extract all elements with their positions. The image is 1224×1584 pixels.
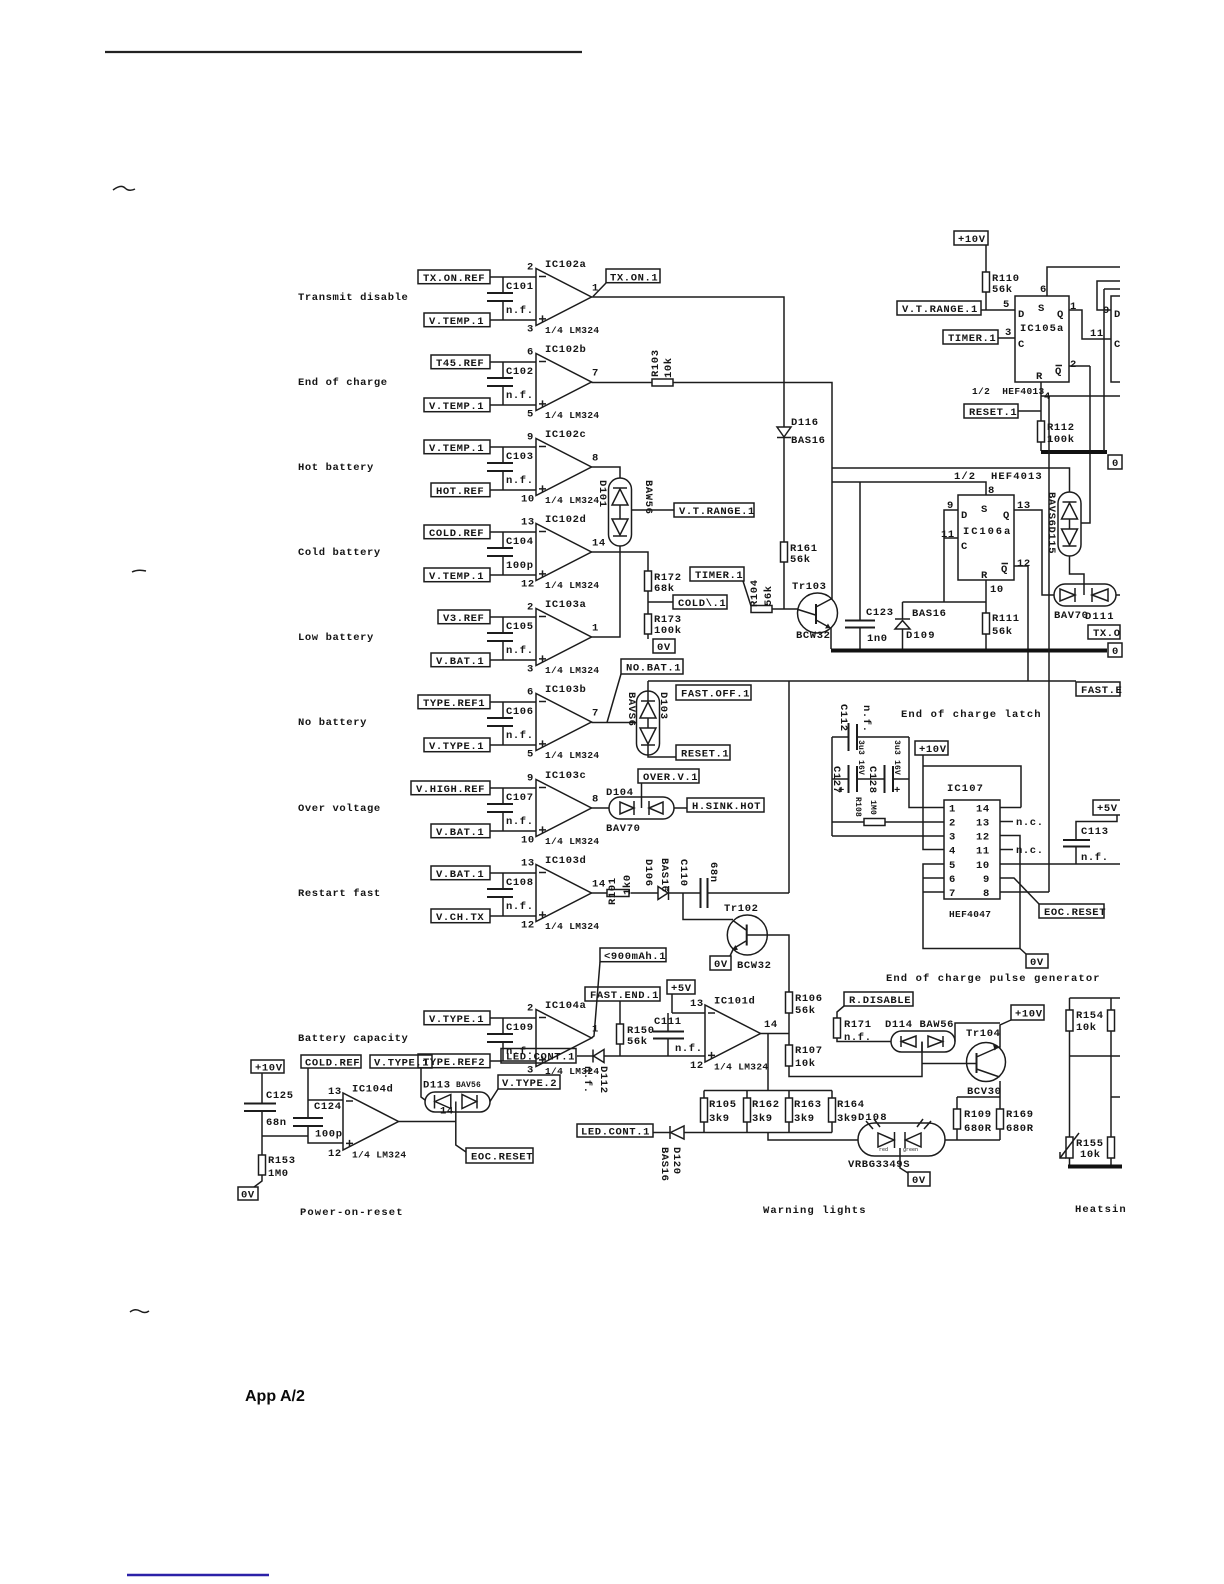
wire V.TEMP.1 to IC102b plus input [490, 404, 536, 406]
svg-text:13: 13 [690, 998, 704, 1010]
svg-text:IC106a: IC106a [963, 526, 1012, 538]
net label RESET.1 (right) [964, 404, 1018, 419]
wire V.HIGH.REF to IC103c minus input [490, 787, 536, 789]
svg-text:End of charge pulse generator: End of charge pulse generator [886, 973, 1101, 985]
svg-text:R154: R154 [1076, 1010, 1104, 1022]
wire heatsink mid rail [1070, 1055, 1121, 1057]
dual diode D113 [425, 1092, 490, 1112]
svg-text:No battery: No battery [298, 717, 367, 729]
net label 0V (Tr102) [710, 956, 731, 971]
svg-text:T45.REF: T45.REF [436, 358, 484, 370]
svg-text:V.TYPE.1: V.TYPE.1 [374, 1058, 429, 1070]
wire D101 mid to V.T.RANGE.1 [632, 509, 675, 511]
svg-text:1/4 LM324: 1/4 LM324 [545, 325, 599, 336]
diode D120 BAS16 [653, 1126, 684, 1182]
resistor R164 3k9 [829, 1091, 865, 1133]
svg-text:Heatsin: Heatsin [1075, 1204, 1127, 1216]
wire IC104d out [399, 1112, 456, 1122]
svg-text:H.SINK.HOT: H.SINK.HOT [692, 801, 761, 813]
net label V.CH.TX (row IC103d bottom) [431, 909, 490, 924]
wire D106 to C110 [669, 892, 701, 894]
svg-text:12: 12 [521, 919, 535, 931]
wire mid cap row [832, 778, 909, 780]
net label TX.O (cut) [1088, 625, 1121, 640]
wire V.TYPE.1 to IC103b plus input [490, 744, 536, 746]
net label TIMER.1 (right) [943, 330, 998, 345]
resistor R107 10k [786, 1045, 823, 1070]
wire pin 10 long line [1000, 863, 1120, 865]
svg-text:n.f.: n.f. [860, 705, 872, 733]
svg-text:Warning lights: Warning lights [763, 1205, 867, 1217]
net label 0V (IC107) [1026, 954, 1048, 969]
wire Tr104 collector to +10V [999, 1020, 1011, 1047]
svg-text:12: 12 [328, 1148, 342, 1160]
wire LED feed jog to D108 [768, 1133, 858, 1141]
resistor R106 56k [786, 992, 823, 1017]
svg-text:BAS16: BAS16 [658, 858, 670, 893]
svg-text:7: 7 [592, 368, 599, 380]
net label 0V (D108) [908, 1172, 930, 1187]
svg-text:IC102a: IC102a [545, 259, 587, 271]
wire TX.ON.1 label stub [593, 283, 606, 297]
svg-text:2: 2 [949, 818, 956, 830]
wire D103 top to FAST wire [647, 681, 649, 701]
svg-text:1/4 LM324: 1/4 LM324 [545, 921, 599, 932]
page header rule [105, 51, 582, 53]
wire COLD.REF down to minus input [308, 1068, 343, 1118]
svg-text:680R: 680R [964, 1123, 992, 1135]
net label V.T.RANGE.1 (right) [897, 301, 981, 316]
svg-text:BAS16: BAS16 [791, 435, 826, 447]
wire right-edge vertical to RESET net [1104, 289, 1120, 451]
svg-text:Hot battery: Hot battery [298, 462, 374, 474]
wire D101 bottom to IC102d out junction [619, 546, 621, 552]
wire V.TYPE.1 to IC104a minus input [490, 1017, 536, 1019]
wire R150 to plus line [619, 1044, 621, 1056]
resistor R108 1M0 [853, 797, 885, 826]
wire 0V corner stub [1020, 949, 1026, 955]
wire FAST.END.1 to R150 [619, 1001, 621, 1024]
svg-text:1: 1 [592, 283, 599, 295]
svg-text:FAST.END.1: FAST.END.1 [590, 990, 659, 1002]
wire OVER.V.1 to D104 centre [641, 783, 643, 797]
flip-flop IC106a (1/2 HEF4013) [958, 495, 1014, 582]
net label OVER.V.1 [638, 769, 699, 784]
svg-text:D108: D108 [858, 1112, 888, 1124]
svg-text:0V: 0V [912, 1175, 926, 1187]
svg-text:0: 0 [1112, 646, 1119, 658]
wire IC105a Qbar stub [1069, 365, 1090, 367]
svg-text:100p: 100p [315, 1129, 343, 1141]
net label T45.REF (row IC102b top) [431, 355, 490, 370]
svg-text:BAS16: BAS16 [912, 608, 947, 620]
svg-text:Battery capacity: Battery capacity [298, 1033, 409, 1045]
svg-text:11: 11 [1090, 328, 1104, 340]
svg-text:BCW32: BCW32 [796, 630, 831, 642]
wire V.BAT.1 to IC103d minus input [490, 872, 536, 874]
net label TX.ON.REF (row IC102a top) [418, 270, 490, 285]
svg-text:Cold battery: Cold battery [298, 547, 381, 559]
svg-text:1/4 LM324: 1/4 LM324 [545, 750, 599, 761]
svg-text:BAV70: BAV70 [606, 823, 641, 835]
svg-text:V3.REF: V3.REF [443, 613, 484, 625]
svg-text:+10V: +10V [919, 744, 947, 756]
svg-text:Tr102: Tr102 [724, 903, 759, 915]
net label TX.ON.1 [606, 269, 660, 285]
svg-text:n.f.: n.f. [506, 901, 534, 913]
dual diode D101 BAW56 [609, 478, 632, 546]
diode D109 BAS16 [895, 602, 947, 649]
svg-text:5: 5 [527, 408, 534, 420]
wire IC105a S pin to top edge [1047, 267, 1120, 296]
wire IC103a out up to D101 chain [592, 552, 621, 637]
svg-text:+10V: +10V [958, 234, 986, 246]
svg-text:14: 14 [764, 1019, 778, 1031]
svg-text:R103: R103 [650, 349, 662, 377]
wire IC102b out to R103 [592, 382, 653, 384]
svg-text:0V: 0V [657, 642, 671, 654]
svg-text:0V: 0V [241, 1190, 255, 1202]
svg-text:13: 13 [328, 1086, 342, 1098]
svg-text:D114 BAW56: D114 BAW56 [885, 1019, 954, 1031]
svg-text:Restart fast: Restart fast [298, 888, 381, 900]
svg-text:D109: D109 [906, 630, 936, 642]
wire pin 3 line [832, 835, 944, 837]
svg-text:n.f.: n.f. [506, 730, 534, 742]
svg-text:V.TEMP.1: V.TEMP.1 [429, 316, 484, 328]
svg-text:56k: 56k [790, 554, 811, 566]
wire V.TEMP.1 to IC102c minus input [490, 446, 536, 448]
net label V3.REF (row IC103a top) [438, 610, 490, 625]
capacitor C101 [487, 277, 534, 320]
svg-text:FAST.E: FAST.E [1081, 685, 1122, 697]
svg-text:R: R [981, 570, 988, 582]
svg-text:R111: R111 [992, 613, 1020, 625]
svg-text:R107: R107 [795, 1045, 823, 1057]
capacitor C104 [487, 532, 534, 575]
op-amp IC102a [527, 259, 599, 336]
svg-text:10: 10 [521, 493, 535, 505]
wire TX.ON.REF to IC102a minus input [490, 276, 536, 278]
wire pin 13 n.c. [1000, 821, 1013, 823]
wire R101 to D106 [631, 892, 659, 894]
resistor R105 3k9 [701, 1091, 737, 1133]
svg-text:11: 11 [941, 529, 955, 541]
resistor R169 680R [997, 1109, 1034, 1135]
svg-text:End of charge latch: End of charge latch [901, 709, 1042, 721]
svg-text:IC103c: IC103c [545, 770, 586, 782]
svg-text:3k9: 3k9 [709, 1113, 730, 1125]
svg-text:1/4 LM324: 1/4 LM324 [545, 410, 599, 421]
svg-text:IC103a: IC103a [545, 599, 587, 611]
flip-flop IC105b (cut at page edge) [1111, 296, 1121, 382]
svg-text:V.BAT.1: V.BAT.1 [436, 869, 484, 881]
capacitor C128 3u3 16V [866, 740, 901, 797]
svg-text:n.f.: n.f. [1081, 852, 1109, 864]
svg-text:14: 14 [592, 538, 606, 550]
svg-text:R104: R104 [749, 579, 761, 607]
svg-text:10k: 10k [795, 1058, 816, 1070]
svg-text:3: 3 [949, 832, 956, 844]
net label EOC.RESET (bottom) [466, 1148, 533, 1164]
net label 0V (upper bus, cut) [1108, 455, 1122, 470]
svg-text:R108: R108 [853, 797, 862, 817]
wire D109 node to R111 node [903, 601, 987, 603]
wire R110 to D input wire [985, 292, 987, 310]
svg-text:D: D [1018, 309, 1025, 321]
svg-text:3: 3 [527, 323, 534, 335]
wire R111 pins [985, 602, 987, 649]
wire IC106a D/C bracket [944, 510, 958, 602]
svg-text:D112: D112 [597, 1066, 609, 1094]
power label +10V (IC107) [915, 741, 948, 756]
net label V.TEMP.1 (row IC102c top) [424, 440, 490, 455]
net label FAST.OFF.1 [676, 685, 751, 701]
dual diode D114 [891, 1031, 955, 1052]
wire V3.REF to IC103a minus input [490, 616, 536, 618]
wire right rail to pin 1 [909, 737, 944, 808]
svg-text:C113: C113 [1081, 826, 1109, 838]
net label RESET.1 (left) [676, 745, 730, 761]
svg-text:R164: R164 [837, 1099, 865, 1111]
dual LED D108 VRBG3349S [848, 1119, 945, 1171]
svg-text:3k9: 3k9 [794, 1113, 815, 1125]
svg-text:R112: R112 [1047, 422, 1075, 434]
wire IC107 pins 5,6,7 to 0V route [923, 836, 1020, 949]
svg-text:EOC.RESET: EOC.RESET [471, 1152, 533, 1164]
resistor (right ladder top, cut) [1108, 998, 1115, 1137]
net label FAST.END.1 [585, 987, 660, 1002]
svg-text:12: 12 [521, 578, 535, 590]
resistor R153 1M0 [259, 1155, 296, 1180]
svg-text:5: 5 [949, 860, 956, 872]
wire IC106a Q to D111 [1014, 510, 1054, 595]
resistor R171 n.f. [834, 1018, 872, 1044]
svg-text:9: 9 [983, 874, 990, 886]
svg-text:D: D [961, 510, 968, 522]
svg-text:+: + [838, 785, 845, 797]
net label V.TYPE.2 [498, 1075, 560, 1090]
svg-text:C104: C104 [506, 536, 534, 548]
svg-text:R.DISABLE: R.DISABLE [849, 995, 911, 1007]
wire RESET net to IC107 pin8 vertical [1048, 396, 1050, 892]
net label 0V (bus right, cut) [1108, 643, 1122, 658]
power label +10V (Tr104) [1011, 1005, 1044, 1021]
svg-text:10: 10 [521, 834, 535, 846]
svg-text:Power-on-reset: Power-on-reset [300, 1207, 404, 1219]
svg-text:D106: D106 [642, 859, 654, 887]
svg-text:IC102c: IC102c [545, 429, 586, 441]
svg-text:3u3 16V: 3u3 16V [856, 740, 865, 775]
net label COLD.REF (IC104d) [301, 1055, 361, 1070]
wire out down to EOC.RESET [456, 1122, 466, 1153]
svg-text:12: 12 [976, 832, 990, 844]
svg-text:C106: C106 [506, 706, 534, 718]
svg-text:BAVS6D115: BAVS6D115 [1045, 492, 1057, 554]
resistor R162 3k9 [744, 1091, 780, 1133]
wire C110 to FAST vertical [708, 892, 790, 894]
svg-text:8: 8 [983, 888, 990, 900]
svg-text:App A/2: App A/2 [245, 1388, 305, 1405]
svg-text:green: green [903, 1147, 918, 1153]
svg-text:1/4 LM324: 1/4 LM324 [545, 580, 599, 591]
wire right ladder stub [1111, 1096, 1120, 1098]
capacitor C107 [487, 788, 534, 831]
svg-text:1/4 LM324: 1/4 LM324 [545, 495, 599, 506]
svg-text:5: 5 [527, 748, 534, 760]
resistor R150 56k [617, 1024, 655, 1048]
svg-text:D111: D111 [1085, 611, 1115, 623]
diode D106 BAS16 [642, 858, 670, 900]
wire R107 bottom to D114 centre line [789, 1042, 922, 1077]
svg-text:6: 6 [527, 347, 534, 359]
svg-text:V.TYPE.2: V.TYPE.2 [502, 1078, 557, 1090]
svg-text:n.f.: n.f. [506, 475, 534, 487]
svg-text:COLD.REF: COLD.REF [429, 528, 484, 540]
svg-text:0: 0 [1112, 458, 1119, 470]
net label R.DISABLE [844, 992, 913, 1007]
op-amp IC103b [527, 684, 599, 761]
wire TYPE.REF2 to IC104a plus input [490, 1060, 536, 1062]
wire IC102c out to D101 [592, 467, 621, 478]
svg-text:End of charge: End of charge [298, 377, 388, 389]
wire Tr104 emitter down through R169 [999, 1081, 1001, 1140]
svg-text:3u3 16V: 3u3 16V [892, 740, 901, 775]
wire timer node to D115 top [832, 468, 1070, 492]
svg-text:COLD.REF: COLD.REF [305, 1058, 360, 1070]
svg-text:S: S [1038, 303, 1045, 315]
capacitor C113 n.f. [1063, 826, 1109, 864]
svg-text:C: C [961, 541, 968, 553]
svg-text:BCW32: BCW32 [737, 960, 772, 972]
wire pin 2 line through R108 [832, 821, 944, 823]
svg-text:IC105a: IC105a [1020, 323, 1064, 335]
net label COLD\.1 [673, 595, 727, 610]
svg-text:68n: 68n [266, 1117, 287, 1129]
svg-text:IC102b: IC102b [545, 344, 586, 356]
wire D120 to resistor bottoms [684, 1132, 832, 1134]
wire TYPE.REF1 to IC103b minus input [490, 701, 536, 703]
wire R173 to 0V [647, 634, 649, 639]
svg-text:V.HIGH.REF: V.HIGH.REF [416, 784, 485, 796]
wire Tr103 emitter to bus [830, 628, 831, 649]
wire IC102d out to R172 [592, 552, 649, 571]
svg-text:6: 6 [1040, 284, 1047, 296]
wire timer node to IC106a S pin [832, 482, 986, 495]
svg-text:D116: D116 [791, 417, 819, 429]
net label TYPE.REF2 (row IC104a bottom) [418, 1054, 490, 1069]
margin squiggle 2 [132, 570, 146, 572]
svg-text:D103: D103 [657, 692, 669, 720]
net label V.TEMP.1 (row IC102a bottom) [424, 313, 490, 328]
svg-text:C103: C103 [506, 451, 534, 463]
dual diode D103 BAV56 [637, 691, 660, 755]
svg-text:10: 10 [976, 860, 990, 872]
wire D108 right to R109/R169 bottoms [945, 1139, 1000, 1141]
svg-text:R106: R106 [795, 993, 823, 1005]
net label V.TEMP.1 (row IC102b bottom) [424, 398, 490, 413]
svg-text:LED.CONT.1: LED.CONT.1 [581, 1127, 650, 1139]
svg-text:6: 6 [527, 687, 534, 699]
wire IC105a Q to IC105b C [1069, 310, 1111, 339]
capacitor C109 [487, 1018, 534, 1061]
margin squiggle 1 [113, 186, 135, 190]
capacitor C112 n.f. [837, 704, 872, 751]
net label V.TEMP.1 (row IC102d bottom) [424, 568, 490, 583]
svg-text:Over voltage: Over voltage [298, 803, 381, 815]
svg-text:6: 6 [949, 874, 956, 886]
svg-text:TIMER.1: TIMER.1 [948, 333, 996, 345]
wire D113 right to V.TYPE.2 [490, 1089, 498, 1102]
wire D108 centre to 0V [900, 1148, 908, 1173]
net label COLD.REF (row IC102d top) [424, 525, 490, 540]
svg-text:Q: Q [1001, 564, 1008, 576]
net label TIMER.1 (left) [690, 567, 744, 582]
wire RESET.1 to R pin [1018, 410, 1041, 412]
wire R171 to D114 [837, 1038, 891, 1042]
svg-text:3k9: 3k9 [837, 1113, 858, 1125]
svg-text:1/4 LM324: 1/4 LM324 [545, 836, 599, 847]
0V bus (middle heavy line) [831, 649, 1107, 653]
svg-text:HEF4047: HEF4047 [949, 909, 991, 920]
margin squiggle 3 [130, 1310, 149, 1313]
wire TIMER.1 to IC105a C [998, 337, 1015, 339]
wire IC103b out to D103 [592, 722, 638, 724]
svg-text:56k: 56k [763, 585, 775, 606]
svg-text:7: 7 [949, 888, 956, 900]
svg-text:FAST.OFF.1: FAST.OFF.1 [681, 689, 750, 701]
wire IC105a R pin down [1040, 382, 1042, 451]
svg-text:1: 1 [592, 623, 599, 635]
wire V.BAT.1 to IC103a plus input [490, 659, 536, 661]
svg-text:BAV56: BAV56 [456, 1081, 481, 1090]
svg-text:1: 1 [949, 804, 956, 816]
svg-text:C: C [1018, 339, 1025, 351]
svg-text:D101: D101 [596, 480, 608, 508]
svg-text:n.c.: n.c. [1016, 845, 1044, 857]
svg-text:RESET.1: RESET.1 [969, 407, 1017, 419]
svg-text:C112: C112 [837, 704, 849, 732]
svg-text:2: 2 [1070, 359, 1077, 371]
op-amp IC101d [690, 996, 778, 1073]
svg-text:V.T.RANGE.1: V.T.RANGE.1 [679, 506, 755, 518]
wire Tr103 collector up [831, 598, 832, 600]
wire R153 to 0V [254, 1175, 262, 1187]
svg-text:COLD\.1: COLD\.1 [678, 598, 726, 610]
svg-text:3: 3 [527, 663, 534, 675]
svg-text:R109: R109 [964, 1109, 992, 1121]
svg-text:9: 9 [527, 773, 534, 785]
wire D104 out to H.SINK.HOT [674, 807, 687, 809]
svg-text:1n0: 1n0 [867, 633, 888, 645]
svg-text:C110: C110 [677, 859, 689, 887]
svg-text:Low battery: Low battery [298, 632, 374, 644]
svg-text:Tr103: Tr103 [792, 581, 827, 593]
svg-text:13: 13 [521, 858, 535, 870]
svg-text:1: 1 [1070, 301, 1077, 313]
svg-text:HOT.REF: HOT.REF [436, 486, 484, 498]
svg-text:1M0: 1M0 [868, 800, 877, 815]
svg-text:14: 14 [592, 879, 606, 891]
svg-text:n.c.: n.c. [1016, 817, 1044, 829]
svg-text:D104: D104 [606, 787, 634, 799]
svg-text:TIMER.1: TIMER.1 [695, 570, 743, 582]
svg-text:C128: C128 [866, 766, 878, 794]
wire IC104a out to 900mAh label [592, 962, 601, 1038]
resistor R109 680R [954, 1097, 992, 1140]
svg-text:+10V: +10V [1015, 1009, 1043, 1021]
svg-text:10k: 10k [1076, 1022, 1097, 1034]
